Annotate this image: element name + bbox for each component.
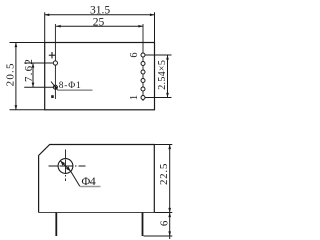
svg-text:1: 1: [129, 95, 140, 100]
svg-text:25: 25: [93, 17, 105, 29]
svg-text:20.5: 20.5: [5, 62, 17, 86]
svg-text:2.54×5: 2.54×5: [157, 60, 168, 90]
svg-text:6: 6: [129, 52, 140, 57]
svg-text:8-Φ1: 8-Φ1: [59, 81, 82, 91]
svg-text:6: 6: [159, 220, 171, 226]
svg-text:7.62: 7.62: [23, 58, 35, 82]
svg-text:31.5: 31.5: [90, 5, 110, 17]
svg-text:22.5: 22.5: [158, 163, 170, 185]
svg-text:Φ4: Φ4: [82, 174, 96, 188]
